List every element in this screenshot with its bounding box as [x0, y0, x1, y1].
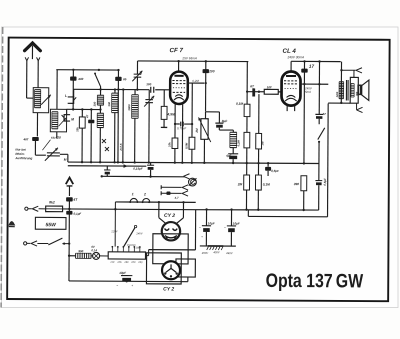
- mains wire row: [63, 208, 196, 211]
- svg-text:100: 100: [146, 82, 151, 86]
- capacitor 200: [205, 61, 207, 111]
- resistor 0.1M column: [246, 62, 248, 105]
- svg-text:CY 2: CY 2: [163, 286, 174, 292]
- svg-text:10µF: 10µF: [233, 221, 240, 225]
- svg-text:0,5M: 0,5M: [184, 142, 188, 149]
- selector left feed: [114, 202, 116, 247]
- svg-text:0,1M: 0,1M: [236, 102, 243, 106]
- wire row 208: [196, 209, 319, 210]
- 55W box: [35, 217, 66, 229]
- bus second line: [68, 165, 146, 167]
- resistor 0.1M b: [257, 163, 259, 175]
- svg-text:0,15µF: 0,15µF: [133, 167, 143, 171]
- svg-text:10µF: 10µF: [119, 271, 126, 275]
- coil 185: [218, 128, 220, 130]
- svg-text:M: M: [64, 158, 67, 162]
- B+ feed to output stage: [340, 62, 342, 103]
- svg-text:220: 220: [130, 261, 136, 264]
- svg-text:Opta 137 GW: Opta 137 GW: [266, 270, 364, 293]
- svg-text:180: 180: [136, 247, 141, 250]
- svg-text:0,75µF: 0,75µF: [177, 126, 186, 130]
- chassis bus: [68, 162, 319, 163]
- lamp branch: [69, 255, 75, 257]
- mains plug glyph: [9, 221, 15, 225]
- bridge rect 3: [176, 259, 196, 277]
- coil 3000: [132, 95, 139, 119]
- fuse 1: [130, 198, 137, 202]
- capacitor 4T: [66, 197, 73, 201]
- capacitor 0.1uF: [66, 211, 72, 215]
- svg-text:ca.420: ca.420: [51, 136, 61, 140]
- capacitor 67: [315, 113, 323, 115]
- svg-text:300: 300: [107, 101, 111, 106]
- svg-text:0,1A: 0,1A: [91, 248, 97, 252]
- svg-text:390: 390: [294, 182, 300, 186]
- svg-text:2M: 2M: [237, 182, 243, 186]
- svg-text:5mA: 5mA: [305, 90, 311, 94]
- resistor 1M: [258, 94, 260, 133]
- svg-text:0,5µF: 0,5µF: [323, 178, 327, 186]
- bridge rect 2: [146, 253, 181, 284]
- coil 300 b: [112, 93, 119, 113]
- wire from CL4 anode: [328, 102, 350, 104]
- selector pins: [112, 247, 140, 252]
- resistor 2M: [246, 163, 248, 175]
- svg-text:CL 4: CL 4: [282, 48, 296, 55]
- svg-text:2×7,5: 2×7,5: [119, 143, 123, 152]
- antenna symbol: [25, 43, 41, 51]
- svg-text:200: 200: [208, 69, 215, 73]
- svg-text:125: 125: [117, 261, 122, 264]
- contact top: [341, 69, 355, 71]
- tube CY2 bottom: [162, 261, 180, 279]
- capacitor 0.5uF right: [318, 142, 320, 181]
- coil 300 a (stacked pair): [100, 87, 102, 96]
- svg-text:300: 300: [93, 101, 97, 106]
- CL4 anode wire: [300, 83, 328, 85]
- svg-text:4µF: 4µF: [225, 154, 231, 158]
- secondary / speaker coil 300: [353, 70, 355, 77]
- speaker horn: [362, 80, 369, 100]
- capacitor 8uF: [206, 111, 220, 113]
- switch right: [318, 119, 320, 124]
- band plug L: [68, 97, 74, 103]
- wire row 215: [247, 210, 249, 217]
- svg-text:CY 2: CY 2: [164, 213, 175, 219]
- svg-text:400: 400: [77, 77, 83, 81]
- tube CY2 top heater V: [159, 218, 166, 224]
- tube CL4: [290, 61, 292, 71]
- antenna lead right: [37, 57, 40, 60]
- trimmer C2: [148, 90, 150, 100]
- grid wire to CF7: [73, 88, 149, 90]
- svg-text:1: 1: [132, 192, 134, 196]
- svg-text:1M: 1M: [260, 141, 264, 146]
- svg-text:15k: 15k: [75, 127, 79, 132]
- svg-text:–: –: [224, 226, 226, 230]
- aerial input socket: [25, 207, 28, 210]
- resistor 390: [303, 162, 305, 164]
- trimmer C top: [136, 61, 138, 74]
- svg-text:990: 990: [78, 249, 83, 253]
- svg-text:67: 67: [323, 112, 327, 116]
- bridge rect 1: [153, 234, 188, 264]
- svg-text:25V 65mA: 25V 65mA: [181, 56, 196, 60]
- gram contact row 2: [160, 185, 162, 189]
- svg-text:–: –: [116, 283, 118, 287]
- svg-text:M: M: [71, 118, 74, 122]
- selector arm: [124, 227, 135, 246]
- svg-text:200V: 200V: [201, 252, 209, 255]
- svg-text:Ausführung: Ausführung: [14, 156, 32, 160]
- pickup wire: [102, 175, 185, 177]
- resistor 4.5M: [163, 90, 165, 107]
- resistor 0.5M: [191, 83, 193, 137]
- pickup contact row 1: [183, 174, 189, 177]
- svg-text:10F: 10F: [267, 85, 272, 89]
- voltage selector board: [108, 252, 145, 259]
- svg-text:240V: 240V: [225, 252, 233, 255]
- right column wire: [318, 61, 320, 114]
- switch input 2: [24, 242, 27, 245]
- switch contacts 2x7.5: [102, 139, 106, 143]
- dial lamp: [93, 252, 100, 259]
- svg-text:0,5µF: 0,5µF: [271, 169, 279, 173]
- svg-text:+: +: [131, 284, 133, 288]
- svg-text:3000: 3000: [127, 104, 131, 111]
- volume potentiometer: [204, 112, 206, 119]
- svg-text:4,7: 4,7: [174, 196, 179, 200]
- band plug M: [64, 115, 70, 121]
- CF7 cathode leads: [174, 104, 176, 138]
- bottom wire: [69, 280, 188, 283]
- wire row 109: [67, 108, 101, 110]
- right feed down: [194, 209, 196, 249]
- svg-text:150: 150: [124, 261, 129, 264]
- wire / coil L2 column: [56, 70, 58, 110]
- output transformer primary 3200: [339, 82, 344, 99]
- wire column 122.5: [122, 90, 124, 163]
- svg-text:CF 7: CF 7: [169, 47, 183, 54]
- svg-text:+: +: [201, 235, 203, 239]
- svg-text:400V: 400V: [213, 251, 220, 254]
- CL4 heater stubs: [286, 106, 288, 111]
- wire top RF: [56, 69, 118, 71]
- svg-text:55W: 55W: [46, 222, 58, 228]
- heater wire with fuses: [115, 201, 195, 203]
- antenna lead left: [25, 57, 28, 60]
- svg-text:10k: 10k: [167, 142, 171, 147]
- wire row 249: [149, 249, 196, 251]
- svg-text:–: –: [199, 226, 201, 230]
- electrolytic 10uF a: [205, 209, 207, 225]
- svg-text:0,2M: 0,2M: [192, 79, 199, 83]
- series capacitor 100: [150, 87, 152, 93]
- tube CY2 top: [162, 222, 181, 241]
- svg-text:4,5M: 4,5M: [166, 112, 175, 116]
- mains antenna symbol: [66, 178, 73, 185]
- tube CF7: [178, 61, 180, 72]
- svg-text:17: 17: [309, 64, 315, 69]
- ground bar: [200, 245, 236, 247]
- svg-text:L: L: [65, 94, 67, 98]
- capacitor 0.5uF bus: [267, 163, 269, 166]
- antenna coil (variable): [33, 88, 49, 113]
- capacitor 17: [303, 61, 306, 163]
- transformer core: [345, 80, 347, 100]
- trimmer ca.420: [47, 152, 60, 154]
- capacitor 46T: [32, 137, 39, 141]
- svg-text:47: 47: [85, 114, 89, 119]
- speaker magnet: [357, 85, 361, 96]
- contact bottom: [356, 103, 358, 109]
- capacitor 4uF: [232, 148, 234, 154]
- svg-text:10µF: 10µF: [208, 221, 215, 225]
- capacitor 65: [117, 70, 120, 162]
- switch S1: [95, 74, 101, 87]
- capacitor 400: [72, 70, 74, 110]
- fuse 8k2: [46, 206, 63, 212]
- svg-text:0,1µF: 0,1µF: [74, 212, 82, 216]
- resistor 15k: [81, 109, 83, 116]
- svg-text:2: 2: [143, 192, 146, 196]
- svg-text:0,2M: 0,2M: [236, 139, 240, 146]
- capacitor 47: [90, 109, 92, 119]
- electrolytic 10uF b: [230, 210, 232, 226]
- svg-text:65: 65: [123, 77, 127, 81]
- wire B+ right segment: [291, 60, 341, 62]
- capacitor at 107: [106, 166, 108, 170]
- CL4 grid wire: [247, 91, 281, 93]
- wire B+ left segment: [138, 60, 249, 63]
- coil 990: [76, 253, 91, 258]
- gram contact row 3: [160, 191, 162, 195]
- svg-text:0,1M: 0,1M: [263, 182, 270, 186]
- svg-text:2M: 2M: [195, 128, 199, 134]
- svg-text:110: 110: [110, 261, 115, 264]
- svg-text:3200: 3200: [336, 91, 339, 97]
- schematic border frame: [7, 38, 389, 302]
- svg-text:240V 30mA: 240V 30mA: [286, 55, 304, 59]
- CF7 anode wire 0.2M: [188, 82, 204, 84]
- svg-text:8k2: 8k2: [49, 200, 55, 204]
- pickup jack: [189, 178, 197, 186]
- svg-text:240: 240: [137, 261, 143, 264]
- svg-text:220V: 220V: [110, 230, 117, 233]
- svg-text:240V: 240V: [135, 232, 142, 235]
- capacitor 0.75uF: [150, 163, 152, 165]
- fuse 2: [143, 198, 150, 202]
